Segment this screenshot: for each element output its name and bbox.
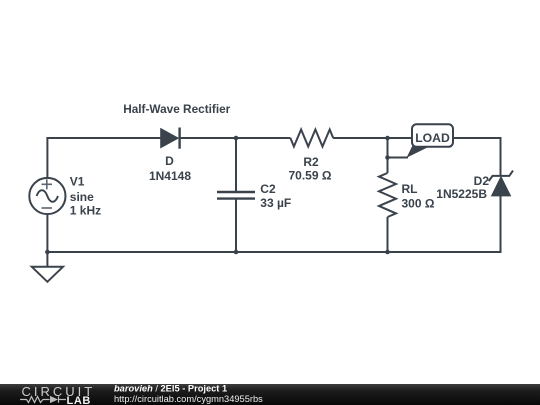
svg-text:LOAD: LOAD	[415, 131, 450, 145]
wire top horizontal right (R2 to right corner)	[333, 137, 500, 139]
svg-text:300 Ω: 300 Ω	[402, 197, 435, 211]
node LOAD attach	[385, 155, 390, 160]
ground	[32, 267, 63, 282]
diode D (1N4148)	[161, 128, 180, 149]
capacitor C2 plates	[217, 192, 255, 199]
svg-text:R2: R2	[303, 155, 319, 169]
wire V1 bottom vertical	[46, 214, 48, 252]
svg-text:V1: V1	[70, 175, 85, 189]
svg-text:Half-Wave Rectifier: Half-Wave Rectifier	[123, 102, 230, 116]
CircuitLab logo wordmark	[20, 384, 95, 405]
wire RL branch top	[387, 138, 389, 173]
footer bar	[0, 384, 540, 405]
node RL top	[385, 136, 390, 141]
svg-text:D: D	[165, 154, 174, 168]
label R2 70.59 Ohm	[289, 155, 332, 183]
voltage source V1	[29, 178, 65, 214]
LOAD flag	[407, 124, 454, 158]
svg-text:70.59 Ω: 70.59 Ω	[289, 168, 332, 182]
wire top horizontal middle (diode to R2)	[180, 137, 291, 139]
wire RL branch bottom	[387, 217, 389, 252]
svg-text:LAB: LAB	[67, 395, 91, 405]
wire right vertical lower (zener to bottom)	[500, 196, 502, 254]
svg-text:1N4148: 1N4148	[149, 169, 191, 183]
wire bottom horizontal	[47, 251, 500, 253]
label D2 1N5225B	[436, 174, 489, 201]
svg-text:1N5225B: 1N5225B	[436, 187, 487, 201]
logo resistor-diode squiggle	[20, 396, 66, 402]
svg-text:33 µF: 33 µF	[260, 196, 291, 210]
resistor R2 zigzag	[290, 130, 333, 147]
svg-text:http://circuitlab.com/cygmn349: http://circuitlab.com/cygmn34955rbs	[114, 394, 263, 404]
wire capacitor branch top	[235, 138, 237, 192]
wire V1 top vertical	[46, 138, 48, 178]
wire capacitor branch bottom	[235, 199, 237, 253]
wire ground stub	[46, 252, 48, 267]
footer credit line	[114, 384, 263, 404]
node capacitor bottom	[234, 250, 239, 255]
zener diode D2	[489, 171, 513, 196]
label RL 300 Ohm	[402, 182, 435, 210]
resistor RL zigzag	[379, 173, 396, 217]
label D 1N4148	[149, 154, 191, 183]
node RL bottom	[385, 250, 390, 255]
wire right vertical upper (to zener)	[500, 137, 502, 176]
svg-text:sine: sine	[70, 190, 94, 204]
svg-text:C2: C2	[260, 182, 276, 196]
wire LOAD flag stub	[388, 157, 409, 159]
node capacitor top	[234, 136, 239, 141]
svg-text:barovieh / 2EI5 - Project 1: barovieh / 2EI5 - Project 1	[114, 384, 227, 394]
svg-text:1 kHz: 1 kHz	[70, 204, 101, 218]
label V1 sine 1 kHz	[70, 175, 101, 218]
node ground	[45, 250, 50, 255]
wire top horizontal left (V1 to diode)	[46, 137, 161, 139]
svg-text:RL: RL	[402, 182, 418, 196]
label C2 33 uF	[260, 182, 291, 210]
